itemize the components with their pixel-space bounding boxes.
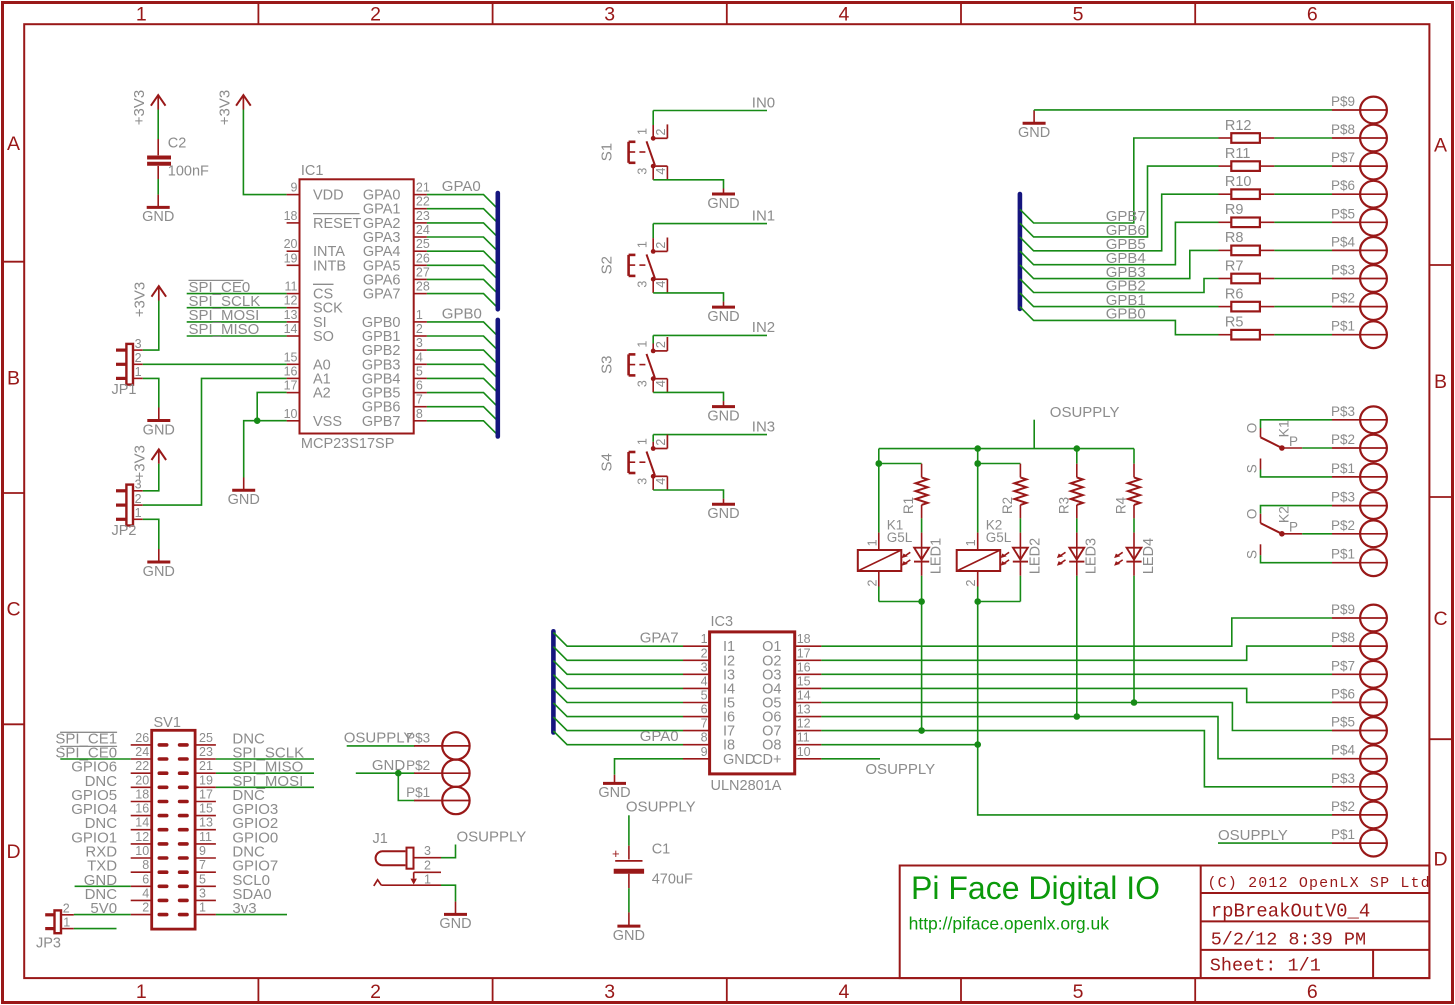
svg-text:5: 5 bbox=[1073, 4, 1084, 26]
IC1 pin 2 GPB1 bbox=[362, 322, 427, 345]
IC3 pin 15 O4 bbox=[762, 674, 821, 697]
svg-text:14: 14 bbox=[135, 816, 149, 830]
IC3 pin 4 I4 bbox=[683, 674, 735, 697]
svg-text:R1: R1 bbox=[901, 497, 916, 514]
svg-text:470uF: 470uF bbox=[652, 872, 693, 888]
SV1 pin 20 DNC bbox=[85, 773, 167, 790]
svg-text:2: 2 bbox=[424, 858, 431, 872]
wire K2 pin2 to LED2 bbox=[978, 601, 1021, 603]
IC1 pin 25 GPA4 bbox=[363, 237, 430, 260]
svg-text:S: S bbox=[1244, 464, 1259, 473]
svg-text:P$9: P$9 bbox=[1331, 94, 1355, 109]
svg-text:+3V3: +3V3 bbox=[132, 282, 149, 317]
wire IC3 O8 to K2 column bbox=[821, 744, 977, 746]
IC1 pin 12 SCK bbox=[284, 294, 344, 317]
svg-text:R3: R3 bbox=[1056, 497, 1071, 514]
IC1 pin 3 GPB2 bbox=[362, 336, 427, 359]
svg-text:2: 2 bbox=[142, 901, 149, 915]
IC1 pin 8 GPB7 bbox=[362, 407, 427, 430]
svg-text:2: 2 bbox=[654, 242, 668, 249]
junction rail R3 bbox=[1074, 445, 1081, 452]
wire IC3 O1 to pad P$9 bbox=[821, 618, 1332, 646]
relay contact K1 bbox=[1244, 420, 1332, 477]
IC1 pin 11 CS bbox=[285, 280, 334, 303]
svg-text:6: 6 bbox=[701, 703, 708, 717]
switch S1 bbox=[599, 124, 669, 179]
pad P$1 (top header) bbox=[1331, 319, 1387, 348]
connector JP3 bbox=[36, 902, 74, 952]
relay contact K2 bbox=[1244, 506, 1332, 563]
svg-text:+: + bbox=[612, 846, 620, 861]
IC1 pin 20 INTA bbox=[284, 237, 346, 260]
wire +3V3 to IC1 VDD bbox=[243, 110, 286, 195]
SV1 pin 4 DNC bbox=[85, 886, 167, 903]
resistor R10 bbox=[1219, 174, 1333, 199]
ground GND (C1) bbox=[613, 912, 645, 944]
svg-text:1: 1 bbox=[636, 438, 650, 445]
SV1 pin 11 GPIO0 bbox=[180, 829, 279, 846]
IC1 pin 19 INTB bbox=[284, 251, 346, 274]
svg-text:2: 2 bbox=[370, 981, 381, 1003]
title text Pi Face Digital IO bbox=[911, 870, 1160, 906]
svg-text:16: 16 bbox=[797, 660, 811, 674]
IC3 pin 5 I5 bbox=[683, 689, 735, 712]
svg-text:SO: SO bbox=[313, 329, 334, 345]
SV1 pin 19 SPI_MOSI bbox=[180, 773, 304, 790]
svg-text:P$5: P$5 bbox=[1331, 206, 1355, 221]
svg-text:3: 3 bbox=[636, 168, 650, 175]
svg-text:2: 2 bbox=[964, 579, 978, 586]
wire K1 pin2 to LED1 bbox=[879, 601, 922, 603]
IC3 pin 8 I8 bbox=[683, 731, 735, 754]
svg-text:6: 6 bbox=[416, 379, 423, 393]
frame column numbers top bbox=[136, 4, 1318, 26]
svg-text:8: 8 bbox=[701, 731, 708, 745]
svg-text:P$6: P$6 bbox=[1331, 178, 1355, 193]
wire GPA4 bus to IC3 I4 bbox=[553, 675, 683, 689]
svg-text:P$3: P$3 bbox=[1331, 404, 1355, 419]
resistor R3 + LED3 bbox=[1056, 449, 1099, 720]
wire IC3 O4 to pad P$6 bbox=[821, 688, 1332, 702]
wire GPB3 to bus bbox=[427, 364, 498, 378]
switch S2 bbox=[599, 238, 669, 293]
wire net SPI_CE0 bbox=[187, 279, 287, 296]
svg-text:6: 6 bbox=[1307, 981, 1318, 1003]
svg-text:15: 15 bbox=[797, 674, 811, 688]
wire GPB0 to bus bbox=[427, 322, 498, 336]
pad P$1 (K1) bbox=[1331, 461, 1387, 490]
ground GND (S2) bbox=[707, 302, 739, 325]
pad P$4 (top header) bbox=[1331, 234, 1387, 263]
IC3 pin 3 I3 bbox=[683, 660, 735, 683]
ground GND (C2) bbox=[142, 195, 174, 226]
switch S3 bbox=[599, 337, 669, 392]
title copyright bbox=[1208, 875, 1431, 892]
wire OSUPPLY rail bbox=[879, 448, 1134, 450]
svg-text:OSUPPLY: OSUPPLY bbox=[1218, 827, 1288, 844]
svg-text:GND: GND bbox=[723, 752, 755, 768]
IC1 pin 1 GPB0 bbox=[362, 308, 427, 331]
svg-text:IN1: IN1 bbox=[752, 207, 775, 224]
svg-text:10: 10 bbox=[135, 844, 149, 858]
svg-text:C: C bbox=[6, 599, 20, 621]
svg-text:ULN2801A: ULN2801A bbox=[711, 778, 782, 794]
wire IC3 O7 to pad P$3 bbox=[821, 731, 1332, 787]
svg-text:G5L: G5L bbox=[887, 530, 913, 545]
svg-text:3: 3 bbox=[604, 4, 615, 26]
svg-text:P$8: P$8 bbox=[1331, 122, 1355, 137]
resistor R7 bbox=[1219, 258, 1333, 283]
op-amp IC1 MCP23S17SP body bbox=[300, 163, 414, 452]
IC1 pin 23 GPA2 bbox=[363, 209, 430, 232]
svg-text:OSUPPLY: OSUPPLY bbox=[1050, 404, 1120, 421]
svg-text:13: 13 bbox=[199, 816, 213, 830]
IC1 pin 16 A1 bbox=[284, 364, 331, 387]
title sheet bbox=[1210, 955, 1321, 976]
SV1 pin 24 SPI_CE0 bbox=[55, 745, 166, 762]
ground GND (JP1) bbox=[143, 408, 175, 439]
svg-text:GPB0: GPB0 bbox=[1106, 306, 1146, 323]
pad P$3 (output header) bbox=[1331, 771, 1387, 800]
wire net GPB0 to R5 bbox=[1020, 306, 1219, 335]
pad P$2 (top header) bbox=[1331, 291, 1387, 320]
ground GND (IC3) bbox=[598, 775, 630, 801]
resistor R6 bbox=[1219, 286, 1333, 311]
svg-text:27: 27 bbox=[416, 265, 430, 279]
SV1 pin 15 GPIO3 bbox=[180, 801, 279, 818]
svg-text:JP2: JP2 bbox=[112, 523, 137, 539]
svg-text:P$3: P$3 bbox=[1331, 771, 1355, 786]
ground GND (J1) bbox=[439, 902, 471, 933]
wire GPB4 to bus bbox=[427, 378, 498, 392]
svg-text:Sheet: 1/1: Sheet: 1/1 bbox=[1210, 955, 1321, 976]
svg-text:R6: R6 bbox=[1225, 286, 1244, 302]
ground GND (S3) bbox=[707, 401, 739, 424]
junction K2 column bbox=[974, 598, 981, 605]
svg-text:6: 6 bbox=[142, 872, 149, 886]
net label OSUPPLY (rail) bbox=[1034, 404, 1119, 448]
net label OSUPPLY (power header) bbox=[344, 730, 415, 747]
wire net GPB7 to R12 bbox=[1020, 138, 1219, 225]
wire GPA1 bus to IC3 I7 bbox=[553, 717, 683, 731]
svg-text:MCP23S17SP: MCP23S17SP bbox=[301, 436, 395, 452]
pad P$2 (K1) bbox=[1331, 432, 1387, 461]
svg-text:7: 7 bbox=[416, 393, 423, 407]
svg-text:IC3: IC3 bbox=[711, 614, 734, 630]
power +3V3 (JP2) bbox=[132, 445, 167, 480]
svg-text:15: 15 bbox=[199, 802, 213, 816]
IC3 pin 13 O6 bbox=[762, 703, 821, 726]
wire 5V0 SV1 to JP3 bbox=[74, 914, 131, 916]
wire net SPI_MOSI bbox=[187, 307, 287, 324]
svg-text:3: 3 bbox=[636, 281, 650, 288]
IC1 pin 28 GPA7 bbox=[363, 280, 430, 303]
svg-text:K2: K2 bbox=[1276, 506, 1292, 523]
svg-text:1: 1 bbox=[865, 539, 879, 546]
wire GPA5 bus to IC3 I3 bbox=[553, 661, 683, 675]
svg-text:1: 1 bbox=[964, 539, 978, 546]
svg-text:2: 2 bbox=[654, 341, 668, 348]
svg-text:GND: GND bbox=[1018, 125, 1050, 141]
svg-text:GND: GND bbox=[228, 492, 260, 508]
svg-text:17: 17 bbox=[797, 646, 811, 660]
svg-text:B: B bbox=[1434, 371, 1447, 393]
svg-text:GND: GND bbox=[143, 422, 175, 438]
svg-text:P$1: P$1 bbox=[1331, 319, 1355, 334]
svg-text:CD+: CD+ bbox=[752, 752, 781, 768]
svg-text:GPB7: GPB7 bbox=[362, 414, 401, 430]
net label GPA7 bbox=[640, 630, 679, 647]
pad P$1 (power header) bbox=[406, 785, 469, 814]
SV1 pin 1 3v3 bbox=[180, 900, 257, 917]
svg-text:3: 3 bbox=[636, 478, 650, 485]
SV1 pin 18 GPIO5 bbox=[71, 787, 166, 804]
wire net IN2 bbox=[653, 319, 775, 343]
svg-text:4: 4 bbox=[838, 981, 849, 1003]
svg-text:19: 19 bbox=[284, 251, 298, 265]
svg-text:+3V3: +3V3 bbox=[132, 445, 149, 480]
svg-text:8: 8 bbox=[142, 858, 149, 872]
ground GND (S4) bbox=[707, 499, 739, 522]
svg-text:GND: GND bbox=[707, 309, 739, 325]
wire GPA0 to bus bbox=[427, 195, 498, 209]
svg-text:11: 11 bbox=[797, 731, 810, 745]
svg-text:4: 4 bbox=[654, 168, 668, 175]
resistor R2 + LED2 bbox=[978, 464, 1044, 602]
svg-text:2: 2 bbox=[370, 4, 381, 26]
svg-text:RESET: RESET bbox=[313, 216, 361, 232]
pad P$3 (power header) bbox=[406, 731, 469, 760]
svg-text:JP3: JP3 bbox=[36, 936, 61, 952]
wire +3V3 to C2 bbox=[157, 110, 159, 140]
svg-text:P$7: P$7 bbox=[1331, 150, 1355, 165]
IC1 pin 7 GPB6 bbox=[362, 393, 427, 416]
wire SPI_MOSI (SV1) bbox=[216, 786, 314, 788]
junction K1 coil / R1 bbox=[876, 460, 883, 467]
junction A2/VSS bbox=[254, 417, 261, 424]
svg-text:13: 13 bbox=[284, 308, 298, 322]
capacitor C1 470uF bbox=[612, 841, 693, 888]
svg-text:C2: C2 bbox=[168, 136, 187, 152]
svg-text:G5L: G5L bbox=[986, 530, 1012, 545]
frame row letters left bbox=[6, 133, 20, 863]
svg-text:O: O bbox=[1244, 509, 1259, 520]
wire JP2 pin3 to +3V3 bbox=[143, 464, 159, 491]
frame row letters right bbox=[1433, 135, 1447, 871]
IC1 pin 14 SO bbox=[284, 322, 334, 345]
svg-text:OSUPPLY: OSUPPLY bbox=[344, 730, 414, 747]
IC1 pin 24 GPA3 bbox=[363, 223, 430, 246]
IC1 pin 18 RESET bbox=[284, 209, 362, 232]
pad P$2 (power header) bbox=[406, 758, 469, 787]
wire net SPI_MISO bbox=[187, 321, 287, 338]
wire GPA4 to bus bbox=[427, 251, 498, 265]
svg-text:rpBreakOutV0_4: rpBreakOutV0_4 bbox=[1211, 901, 1371, 923]
svg-text:4: 4 bbox=[838, 4, 849, 26]
IC1 pin 10 VSS bbox=[284, 407, 342, 430]
svg-text:R8: R8 bbox=[1225, 230, 1244, 246]
wire 3v3 (SV1) bbox=[216, 914, 287, 916]
wire GPA3 bus to IC3 I5 bbox=[553, 689, 683, 703]
svg-text:3: 3 bbox=[701, 660, 708, 674]
wire JP1 pin3 to +3V3 bbox=[143, 301, 159, 351]
svg-text:P$6: P$6 bbox=[1331, 686, 1355, 701]
svg-text:8: 8 bbox=[416, 407, 423, 421]
svg-text:P$2: P$2 bbox=[406, 758, 430, 773]
svg-text:1: 1 bbox=[636, 128, 650, 135]
IC1 pin 9 VDD bbox=[287, 181, 344, 204]
svg-text:4: 4 bbox=[654, 380, 668, 387]
svg-text:1: 1 bbox=[136, 981, 147, 1003]
title block bbox=[900, 866, 1430, 979]
svg-text:1: 1 bbox=[135, 365, 142, 379]
IC3 pin 10 CD+ bbox=[752, 745, 821, 768]
SV1 pin 25 DNC bbox=[180, 730, 265, 747]
svg-text:+3V3: +3V3 bbox=[216, 90, 233, 125]
svg-text:S1: S1 bbox=[599, 143, 616, 161]
bus GPA[0..7] bbox=[495, 193, 500, 309]
power +3V3 (C2) bbox=[131, 90, 166, 125]
resistor R12 bbox=[1219, 118, 1333, 143]
svg-text:3: 3 bbox=[604, 981, 615, 1003]
pad P$8 (output header) bbox=[1331, 630, 1387, 659]
svg-text:R10: R10 bbox=[1225, 174, 1252, 190]
wire JP2 pin1 to GND bbox=[143, 519, 159, 549]
svg-text:1: 1 bbox=[636, 241, 650, 248]
SV1 pin 7 GPIO7 bbox=[180, 858, 279, 875]
SV1 pin 10 RXD bbox=[85, 844, 166, 861]
wire GPA0 bus to IC3 I8 bbox=[553, 731, 683, 745]
wire GPB1 to bus bbox=[427, 336, 498, 350]
svg-text:100nF: 100nF bbox=[168, 164, 209, 180]
pad P$5 (output header) bbox=[1331, 715, 1387, 744]
svg-text:IN2: IN2 bbox=[752, 319, 775, 336]
IC3 pin 11 O8 bbox=[762, 731, 821, 754]
svg-text:D: D bbox=[6, 841, 20, 863]
wire IC3 CD+ OSUPPLY stub bbox=[821, 759, 935, 778]
capacitor C2 100nF bbox=[147, 136, 209, 180]
svg-text:5/2/12 8:39 PM: 5/2/12 8:39 PM bbox=[1211, 930, 1366, 951]
connector JP1 bbox=[112, 337, 143, 398]
svg-text:C1: C1 bbox=[652, 841, 671, 857]
svg-text:2: 2 bbox=[701, 646, 708, 660]
pad P$3 (K2) bbox=[1331, 490, 1387, 519]
ground GND (P$9 net) bbox=[1018, 110, 1050, 141]
junction K2 coil / R2 bbox=[974, 460, 981, 467]
wire K2 column to IC3 O8 and pad P$2 bbox=[974, 602, 1332, 815]
svg-text:3: 3 bbox=[135, 337, 142, 351]
svg-text:5: 5 bbox=[1073, 981, 1084, 1003]
svg-text:24: 24 bbox=[135, 745, 149, 759]
svg-text:P$1: P$1 bbox=[1331, 547, 1355, 562]
op-amp IC3 ULN2801A body bbox=[710, 614, 795, 794]
wire net GPB3 to R8 bbox=[1020, 250, 1219, 280]
pad P$7 (output header) bbox=[1331, 658, 1387, 687]
svg-text:GND: GND bbox=[142, 209, 174, 225]
svg-text:C: C bbox=[1433, 608, 1447, 630]
svg-text:2: 2 bbox=[654, 128, 668, 135]
wire GND (SV1) bbox=[75, 885, 131, 887]
svg-text:VSS: VSS bbox=[313, 414, 342, 430]
svg-text:10: 10 bbox=[284, 407, 298, 421]
svg-text:18: 18 bbox=[135, 788, 149, 802]
svg-text:18: 18 bbox=[284, 209, 298, 223]
IC1 pin 6 GPB5 bbox=[362, 379, 427, 402]
svg-text:12: 12 bbox=[284, 294, 298, 308]
svg-text:16: 16 bbox=[135, 802, 149, 816]
resistor R11 bbox=[1219, 146, 1333, 171]
wire net IN0 bbox=[653, 94, 775, 125]
IC3 pin 17 O2 bbox=[762, 646, 821, 669]
pad P$7 (top header) bbox=[1331, 150, 1387, 179]
svg-text:25: 25 bbox=[416, 237, 430, 251]
wire JP1 pin1 to GND bbox=[143, 378, 159, 407]
switch S4 bbox=[599, 435, 669, 490]
svg-text:J1: J1 bbox=[373, 831, 388, 847]
IC3 pin 2 I2 bbox=[683, 646, 735, 669]
wire IC3 GND pin bbox=[615, 759, 684, 775]
IC3 pin 7 I7 bbox=[683, 717, 735, 740]
power +3V3 (JP1) bbox=[132, 282, 167, 317]
svg-text:P$4: P$4 bbox=[1331, 234, 1356, 249]
SV1 pin 2 5V0 bbox=[90, 900, 166, 917]
svg-text:1: 1 bbox=[416, 308, 423, 322]
svg-text:3: 3 bbox=[416, 336, 423, 350]
wire IC3 O5 to pad P$5 bbox=[821, 703, 1332, 731]
IC1 pin 4 GPB3 bbox=[362, 350, 427, 373]
ground GND (S1) bbox=[707, 189, 739, 212]
svg-text:A2: A2 bbox=[313, 386, 331, 402]
wire net IN3 bbox=[653, 418, 775, 441]
IC1 pin 22 GPA1 bbox=[363, 195, 430, 218]
svg-text:R9: R9 bbox=[1225, 202, 1244, 218]
svg-text:GND: GND bbox=[143, 564, 175, 580]
wire net IN1 bbox=[653, 207, 775, 238]
svg-text:B: B bbox=[7, 367, 20, 389]
svg-text:OSUPPLY: OSUPPLY bbox=[865, 761, 935, 778]
svg-text:22: 22 bbox=[135, 759, 149, 773]
svg-text:10: 10 bbox=[797, 745, 811, 759]
pad P$4 (output header) bbox=[1331, 743, 1387, 772]
svg-text:19: 19 bbox=[199, 773, 213, 787]
pad P$1 (output header) bbox=[1331, 827, 1387, 856]
pad P$5 (top header) bbox=[1331, 206, 1387, 235]
svg-text:GND: GND bbox=[707, 408, 739, 424]
svg-text:P$1: P$1 bbox=[1331, 827, 1355, 842]
title project name bbox=[1211, 901, 1371, 923]
IC3 pin 9 GND bbox=[683, 745, 755, 768]
wire GPB7 to bus bbox=[427, 421, 498, 435]
junction rail K2 bbox=[974, 445, 981, 452]
wire GPA2 bus to IC3 I6 bbox=[553, 703, 683, 717]
IC1 pin 5 GPB4 bbox=[362, 364, 427, 387]
IC3 pin 12 O7 bbox=[762, 717, 821, 740]
wire JP1 pin2 to IC1 A0 bbox=[143, 363, 287, 365]
svg-text:2: 2 bbox=[63, 902, 70, 916]
svg-text:S3: S3 bbox=[599, 356, 616, 374]
svg-text:R4: R4 bbox=[1114, 496, 1129, 514]
wire GPA2 to bus bbox=[427, 223, 498, 237]
svg-text:LED1: LED1 bbox=[929, 538, 945, 574]
svg-text:7: 7 bbox=[701, 717, 708, 731]
svg-text:7: 7 bbox=[199, 858, 206, 872]
wire C1 to GND bbox=[628, 888, 630, 912]
title date bbox=[1211, 930, 1366, 951]
wire GPB2 to bus bbox=[427, 350, 498, 364]
svg-text:LED3: LED3 bbox=[1084, 538, 1100, 574]
IC1 pin 21 GPA0 bbox=[363, 181, 430, 204]
svg-text:2: 2 bbox=[865, 579, 879, 586]
